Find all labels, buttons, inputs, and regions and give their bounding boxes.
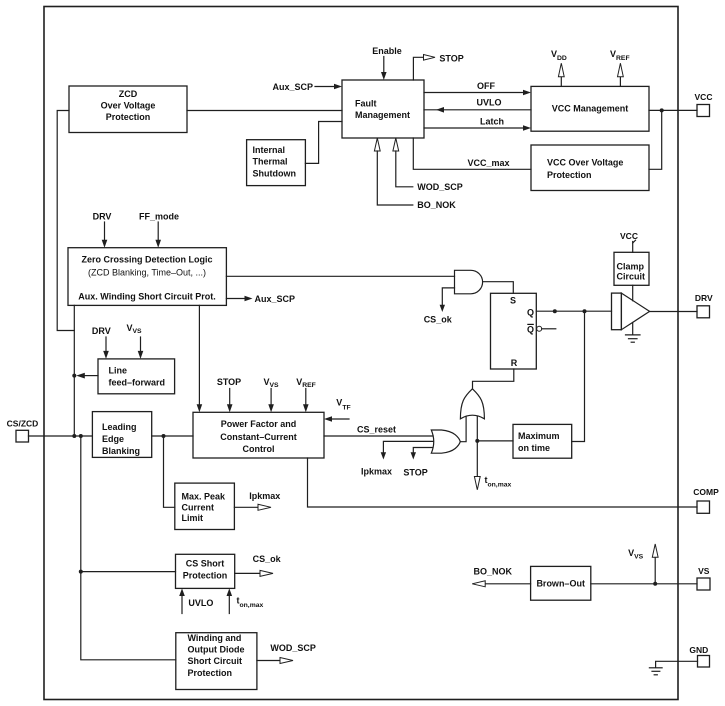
Aux_SCP output arrow of ZCD logic <box>226 294 295 304</box>
wire CS/ZCD net down to protection blocks <box>79 436 176 660</box>
FF_mode label arrow into ZCD logic <box>139 211 179 247</box>
wire LEB net down to Max Peak Current Limit <box>164 436 175 507</box>
CS_ok label arrow into AND gate <box>424 288 455 325</box>
svg-text:Power Factor and: Power Factor and <box>221 419 297 429</box>
svg-text:Brown–Out: Brown–Out <box>536 579 585 589</box>
wire Maximum on time output node <box>475 417 513 443</box>
svg-text:DRV: DRV <box>93 211 112 221</box>
block Brown-Out <box>531 566 591 600</box>
t_on,max arrow down from node <box>474 441 511 490</box>
svg-text:CS_reset: CS_reset <box>357 425 396 435</box>
svg-text:COMP: COMP <box>693 487 719 497</box>
svg-text:Aux_SCP: Aux_SCP <box>273 82 314 92</box>
svg-text:UVLO: UVLO <box>188 598 213 608</box>
wire Q node down to Maximum on time input <box>572 311 585 441</box>
wire ZCD OVP left down to CS/ZCD net <box>57 111 74 331</box>
WOD_SCP label arrow into FM bottom <box>393 138 463 192</box>
svg-text:Fault: Fault <box>355 99 377 109</box>
svg-text:Control: Control <box>243 444 275 454</box>
svg-text:Output Diode: Output Diode <box>188 645 245 655</box>
ground symbol at GND <box>649 668 662 675</box>
svg-text:WOD_SCP: WOD_SCP <box>417 182 463 192</box>
block Power Factor and Constant-Current Control <box>193 412 324 458</box>
svg-text:CS Short: CS Short <box>186 559 225 569</box>
wire OR G2 output to OR G3 input <box>460 417 466 442</box>
wire VCC management to VCC pin <box>649 108 697 112</box>
wire OR G3 output to latch R <box>473 369 514 389</box>
svg-text:VCC: VCC <box>620 231 638 241</box>
STOP output arrow from FM top <box>413 54 463 81</box>
svg-text:S: S <box>510 295 516 305</box>
SR latch U1 <box>491 293 537 369</box>
svg-text:Q: Q <box>527 325 534 335</box>
svg-text:Ipkmax: Ipkmax <box>361 467 392 477</box>
svg-text:Clamp: Clamp <box>617 261 645 271</box>
svg-text:Winding and: Winding and <box>188 633 242 643</box>
Latch arrow FM to VCC management <box>424 117 531 131</box>
svg-text:UVLO: UVLO <box>476 97 501 107</box>
VCC label above clamp circuit <box>620 231 638 253</box>
svg-text:Internal: Internal <box>253 145 286 155</box>
wire ZCD logic to AND gate <box>226 275 454 277</box>
wire CS_reset PFC to OR gate <box>324 425 433 437</box>
latch Qbar bubble and stub <box>537 326 556 331</box>
Vtf label arrow into PFC right edge <box>324 398 351 422</box>
wire LEB to PFC control <box>152 434 193 438</box>
Vvs label arrow into line feed-forward <box>126 323 143 359</box>
Vref label arrow into PFC <box>296 377 316 412</box>
svg-text:Limit: Limit <box>182 513 204 523</box>
svg-text:STOP: STOP <box>439 54 463 64</box>
block VCC Over Voltage Protection <box>531 145 649 191</box>
block VCC Management <box>531 86 649 131</box>
t_on,max label arrow into CS Short Protection <box>227 588 264 613</box>
svg-text:Blanking: Blanking <box>102 446 140 456</box>
svg-text:feed–forward: feed–forward <box>109 378 166 388</box>
block Fault Management <box>342 80 424 138</box>
svg-text:BO_NOK: BO_NOK <box>474 567 513 577</box>
wire AND output to latch S <box>483 282 514 294</box>
driver buffer U2 <box>612 293 650 330</box>
block Zero Crossing Detection Logic <box>68 248 226 306</box>
svg-text:VCC Management: VCC Management <box>552 104 629 114</box>
svg-text:Management: Management <box>355 110 410 120</box>
wire ZCD logic down to PFC control (arrow) <box>197 305 203 412</box>
pin VS <box>697 566 710 590</box>
UVLO arrow VCC management to FM <box>424 97 531 112</box>
svg-text:VCC Over Voltage: VCC Over Voltage <box>547 158 623 168</box>
svg-text:Short Circuit: Short Circuit <box>188 656 243 666</box>
OR gate G3 (2-input, pointing up) <box>460 389 484 419</box>
Ipkmax label arrow into OR gate <box>361 441 433 476</box>
svg-text:GND: GND <box>689 645 708 655</box>
svg-text:Protection: Protection <box>188 668 233 678</box>
svg-text:Protection: Protection <box>547 170 592 180</box>
svg-text:CS_ok: CS_ok <box>253 554 282 564</box>
Vvs label arrow up from VS net <box>628 544 658 584</box>
wire VCC_max OVP to Fault Management <box>413 138 531 169</box>
Aux_SCP label arrow into FM left <box>273 82 343 92</box>
Vvs label arrow into PFC <box>263 377 279 412</box>
wire VCC OVP to VCC net <box>649 110 662 169</box>
svg-text:Protection: Protection <box>106 112 151 122</box>
svg-text:ZCD: ZCD <box>119 89 138 99</box>
pin VCC <box>695 92 713 117</box>
pin CS/ZCD <box>7 419 39 443</box>
BO_NOK label arrow into FM bottom <box>374 138 456 210</box>
svg-text:VCC_max: VCC_max <box>468 158 510 168</box>
svg-text:Thermal: Thermal <box>253 157 288 167</box>
Enable label arrow into FM top <box>372 46 402 80</box>
wire ZCD logic bottom-left down to CS/ZCD net <box>73 305 75 436</box>
svg-text:(ZCD Blanking, Time–Out, ...): (ZCD Blanking, Time–Out, ...) <box>88 268 206 278</box>
svg-text:Leading: Leading <box>102 422 137 432</box>
svg-text:Aux_SCP: Aux_SCP <box>255 294 296 304</box>
svg-text:FF_mode: FF_mode <box>139 211 179 221</box>
svg-text:DRV: DRV <box>92 326 111 336</box>
wire driver output to DRV pin <box>650 311 697 313</box>
block CS Short Protection <box>176 554 235 588</box>
block Line feed-forward <box>98 359 175 394</box>
svg-text:WOD_SCP: WOD_SCP <box>270 643 316 653</box>
svg-text:CS_ok: CS_ok <box>424 315 453 325</box>
pin COMP <box>693 487 719 513</box>
wire line feed-forward output arrow <box>72 373 98 379</box>
block Winding and Output Diode Short Circuit Protection <box>176 633 257 690</box>
wire PFC control to COMP pin <box>308 458 698 507</box>
DRV label arrow into line feed-forward <box>92 326 111 359</box>
wire Internal Thermal Shutdown to FM <box>305 122 342 164</box>
svg-text:DRV: DRV <box>695 293 713 303</box>
svg-text:R: R <box>511 358 518 368</box>
svg-text:STOP: STOP <box>217 377 241 387</box>
svg-text:CS/ZCD: CS/ZCD <box>7 419 39 429</box>
block Clamp Circuit <box>614 252 649 285</box>
wire CS/ZCD pin to Leading Edge Blanking <box>29 434 93 438</box>
DRV label arrow into ZCD logic <box>93 211 112 247</box>
pin GND <box>689 645 709 667</box>
block Max. Peak Current Limit <box>175 483 235 529</box>
wire clamp circuit to driver <box>632 285 634 300</box>
block Leading Edge Blanking <box>92 412 151 458</box>
wire GND pin to ground <box>656 661 698 667</box>
svg-text:Edge: Edge <box>102 434 124 444</box>
svg-text:OFF: OFF <box>477 81 495 91</box>
wire Brown-Out to VS pin <box>591 582 697 586</box>
block ZCD Over Voltage Protection <box>69 86 187 133</box>
pin DRV <box>695 293 713 318</box>
Vref label arrow up from VCC management <box>610 49 630 86</box>
svg-text:Ipkmax: Ipkmax <box>249 491 280 501</box>
svg-text:Line: Line <box>109 366 128 376</box>
svg-text:Enable: Enable <box>372 46 402 56</box>
STOP label arrow into PFC <box>217 377 241 412</box>
svg-text:Aux. Winding Short Circuit Pro: Aux. Winding Short Circuit Prot. <box>78 292 215 302</box>
svg-text:STOP: STOP <box>403 467 427 477</box>
block Internal Thermal Shutdown <box>247 140 306 186</box>
svg-text:on time: on time <box>518 443 550 453</box>
svg-text:Shutdown: Shutdown <box>253 168 297 178</box>
OR gate G2 (3-input, right) <box>431 430 460 453</box>
svg-text:Constant–Current: Constant–Current <box>220 432 297 442</box>
svg-text:Current: Current <box>182 503 215 513</box>
svg-text:VS: VS <box>698 566 710 576</box>
block Maximum on time <box>513 424 572 458</box>
STOP label arrow into OR gate <box>403 448 432 478</box>
CS_ok output arrow from CS Short Protection <box>235 554 282 576</box>
svg-text:VCC: VCC <box>695 92 713 102</box>
svg-text:Latch: Latch <box>480 117 504 127</box>
svg-text:Maximum: Maximum <box>518 431 560 441</box>
svg-text:Over Voltage: Over Voltage <box>101 101 156 111</box>
UVLO label arrow into CS Short Protection <box>179 588 213 613</box>
AND gate G1 <box>455 270 483 294</box>
Vdd label arrow up from VCC management <box>551 49 567 86</box>
OFF arrow FM to VCC management <box>424 81 531 95</box>
Ipkmax output arrow from Max Peak Current Limit <box>234 491 280 511</box>
svg-text:Q: Q <box>527 307 534 317</box>
svg-text:BO_NOK: BO_NOK <box>417 200 456 210</box>
svg-text:Max. Peak: Max. Peak <box>182 492 227 502</box>
wire ZCD OVP to Fault Management <box>187 110 342 112</box>
WOD_SCP output arrow from Winding block <box>257 643 316 664</box>
svg-text:Zero Crossing Detection Logic: Zero Crossing Detection Logic <box>81 255 212 265</box>
ground under driver <box>626 323 641 343</box>
BO_NOK output arrow from Brown-Out <box>472 567 530 587</box>
svg-text:Circuit: Circuit <box>617 272 646 282</box>
svg-text:Protection: Protection <box>183 570 228 580</box>
wire latch Q to driver <box>536 309 611 313</box>
